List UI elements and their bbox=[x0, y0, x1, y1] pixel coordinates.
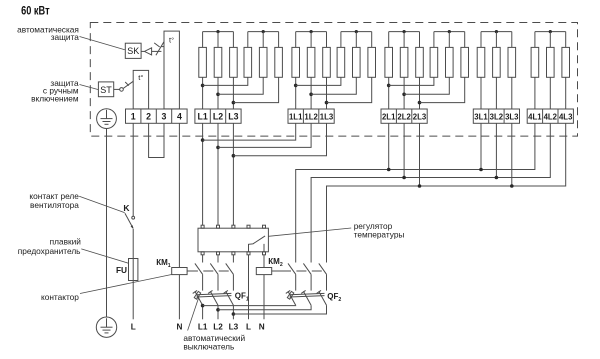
node: star junction bank2 left sub-bank bbox=[310, 30, 313, 33]
wire: top lead element 3 of bank5 bbox=[565, 32, 567, 48]
regulator top pin 5 bbox=[263, 225, 266, 228]
node: bus tee 2L3 bbox=[418, 184, 422, 188]
circuit breaker QF1 pole 1 blade bbox=[195, 291, 203, 305]
fuse FU bbox=[129, 259, 138, 281]
regulator internal relay fixed stub bbox=[263, 244, 265, 252]
wire: KM2 contact 1 to QF2 bbox=[295, 274, 297, 290]
wire: regulator pin4 to L bbox=[248, 255, 250, 319]
wire: bottom lead element 2 of bank2 to terminal bbox=[310, 77, 312, 109]
wire: jumper L3 to 1L3 bbox=[233, 123, 326, 155]
svg-text:SK: SK bbox=[127, 46, 139, 56]
ST pivot circle bbox=[120, 88, 124, 92]
wire: top lead element 1 of bank4 bbox=[480, 32, 482, 48]
wire: bottom lead element 5 of bank1 (stage1) bbox=[218, 77, 263, 94]
leader to ST bbox=[80, 85, 99, 90]
regulator top pin 3 bbox=[232, 225, 235, 228]
heating element bank2 right sub-bank.1 bbox=[337, 47, 345, 77]
wire: bottom lead element 2 of bank1 (stage1) to terminal bbox=[217, 77, 219, 109]
wire: KM1 contact 2 to QF1 bbox=[217, 274, 219, 290]
wire: bottom lead element 3 of bank1 (stage1) to terminal bbox=[232, 77, 234, 109]
heating element bank2 left sub-bank.1 bbox=[292, 47, 300, 77]
leader to FU bbox=[81, 249, 128, 263]
wire: top lead element 2 of bank5 bbox=[549, 32, 551, 48]
KM2 mechanical linkage bbox=[272, 270, 291, 272]
regulator top pin 1 bbox=[201, 225, 204, 228]
svg-text:N: N bbox=[176, 323, 182, 332]
wire: ST to pivot circle bbox=[114, 88, 120, 90]
heating element bank5.3 bbox=[562, 47, 570, 77]
QF1 pole 3 latch tick bbox=[224, 290, 228, 293]
wire: QF1 pole 1 to mains L1 bbox=[202, 305, 204, 319]
wire: star bus of bank3 left sub-bank bbox=[389, 31, 420, 33]
node: bus tee 2L1 bbox=[387, 168, 391, 172]
leader to KM1 coil bbox=[80, 274, 172, 293]
node: star junction bank3 right sub-bank bbox=[448, 30, 451, 33]
svg-text:контактор: контактор bbox=[41, 292, 79, 302]
svg-text:L2: L2 bbox=[213, 323, 223, 332]
svg-text:t°: t° bbox=[169, 35, 174, 44]
heating element bank3 left sub-bank.3 bbox=[416, 47, 424, 77]
KM1 linkage segment 2 bbox=[203, 270, 213, 272]
wire: top lead element 1 of bank1 (stage1) right sub-bank bbox=[247, 32, 249, 48]
node: star junction bank5 bbox=[549, 30, 552, 33]
wire: bottom lead element 4 of bank3 bbox=[389, 77, 434, 85]
wire through fuse bbox=[132, 259, 134, 281]
svg-text:1L2: 1L2 bbox=[304, 112, 318, 121]
regulator bottom pin 8 bbox=[232, 252, 235, 255]
wire: star bus of bank5 bbox=[535, 31, 566, 33]
wire: star bus of bank1 (stage1) left sub-bank bbox=[203, 31, 234, 33]
QF2 trip crossbar bbox=[290, 293, 325, 294]
circuit breaker QF2 pole 2 blade bbox=[303, 291, 311, 305]
wire: SK to triangle bbox=[141, 50, 144, 52]
temperature regulator box U1 bbox=[198, 228, 268, 252]
wire: mains bus phase 2 to QF2 bbox=[218, 305, 311, 310]
wire: top lead element 1 of bank3 right sub-bank bbox=[433, 32, 435, 48]
wire: bus phase 1 from 4L1 to KM2 pole 1 bbox=[296, 123, 535, 262]
leader to K bbox=[79, 196, 124, 212]
wire: stub to sensor box bbox=[161, 46, 164, 48]
wire: terminal 4 down to contactor coil bbox=[178, 123, 180, 267]
contactor KM1 contact 2 blade bbox=[210, 263, 218, 274]
wire: KM2 contact 3 to QF2 bbox=[326, 274, 328, 290]
wire: top lead element 3 of bank2 left sub-bank bbox=[326, 32, 328, 48]
protective earth (bottom, supply side) bbox=[96, 317, 116, 337]
node: mains tee phase 3 bbox=[232, 312, 236, 316]
svg-text:L: L bbox=[246, 323, 251, 332]
wire: top lead element 1 of bank5 bbox=[534, 32, 536, 48]
node: bus tee 2L2 bbox=[402, 176, 406, 180]
svg-text:L3: L3 bbox=[229, 323, 239, 332]
circuit breaker QF1 pole 3 blade bbox=[226, 291, 234, 305]
QF2 pole 1 latch tick bbox=[286, 290, 290, 293]
wire: top lead element 2 of bank4 bbox=[495, 32, 497, 48]
svg-text:L3: L3 bbox=[228, 111, 238, 121]
node: star junction bank3 left sub-bank bbox=[403, 30, 406, 33]
regulator top pin 2 bbox=[217, 225, 220, 228]
svg-text:защита: защита bbox=[51, 32, 80, 42]
wire: bottom lead element 5 of bank3 bbox=[404, 77, 449, 94]
svg-text:1L1: 1L1 bbox=[289, 112, 303, 121]
svg-text:L2: L2 bbox=[213, 111, 223, 121]
node: tee to 1L1 bbox=[201, 138, 205, 142]
wire: regulator pin5 to KM2 coil bbox=[263, 255, 265, 268]
wire: top lead element 3 of bank2 right sub-bank bbox=[371, 32, 373, 48]
svg-text:ST: ST bbox=[100, 85, 112, 95]
QF1 release latch bbox=[194, 291, 201, 299]
wire: bottom lead element 2 of bank4 bbox=[495, 77, 497, 109]
svg-text:2: 2 bbox=[146, 111, 151, 121]
wire: bottom lead element 6 of bank2 bbox=[327, 77, 372, 102]
heating element bank3 right sub-bank.1 bbox=[430, 47, 438, 77]
heating element bank4.2 bbox=[493, 47, 501, 77]
svg-text:4L3: 4L3 bbox=[559, 112, 573, 121]
heating element bank2 left sub-bank.2 bbox=[307, 47, 315, 77]
wire: 3L3 drop to bus bbox=[511, 123, 513, 186]
node: parallel joint phase 1 of bank1 (stage1) bbox=[201, 84, 205, 88]
wire: star bus of bank2 right sub-bank bbox=[341, 31, 372, 33]
wire: top lead element 2 of bank1 (stage1) right sub-bank bbox=[262, 32, 264, 48]
svg-text:L1: L1 bbox=[197, 111, 207, 121]
wire: terminal L2 down to regulator pin 2 bbox=[217, 123, 219, 225]
wire: bottom lead element 6 of bank1 (stage1) bbox=[233, 77, 278, 102]
svg-text:2L3: 2L3 bbox=[413, 112, 427, 121]
svg-text:t°: t° bbox=[138, 73, 143, 82]
contactor KM2 contact 1 blade bbox=[288, 263, 296, 274]
wire: 2L3 drop to bus bbox=[419, 123, 421, 186]
svg-text:1: 1 bbox=[131, 111, 136, 121]
wire: bus phase 2 from 4L2 to KM2 pole 2 bbox=[311, 123, 550, 262]
wire: top lead element 1 of bank3 left sub-bank bbox=[388, 32, 390, 48]
regulator bottom pin 7 bbox=[217, 252, 220, 255]
wire: bus phase 3 from 4L3 to KM2 pole 3 bbox=[327, 123, 566, 262]
terminal strip control terminals 1-4 bbox=[126, 109, 188, 123]
wire: bottom lead element 2 of bank5 bbox=[549, 77, 551, 109]
heating element bank1 (stage1) left sub-bank.3 bbox=[230, 47, 238, 77]
wire: terminal L1 down to regulator pin 1 bbox=[202, 123, 204, 225]
wire: top lead element 2 of bank1 (stage1) left sub-bank bbox=[217, 32, 219, 48]
wire: top lead element 3 of bank1 (stage1) right sub-bank bbox=[278, 32, 280, 48]
wire: bottom lead element 1 of bank3 to terminal bbox=[388, 77, 390, 109]
circuit breaker QF1 pole 2 blade bbox=[210, 291, 218, 305]
svg-text:предохранитель: предохранитель bbox=[18, 246, 81, 256]
ST contact blade bbox=[123, 81, 133, 88]
temperature sensor box t (ST) on terminals 1-2 bbox=[133, 70, 148, 109]
terminal strip stage1 terminals L1 L2 L3 bbox=[195, 109, 241, 123]
ST thermal-trip tick bbox=[125, 82, 129, 86]
svg-text:60 кВт: 60 кВт bbox=[21, 6, 50, 18]
wire: bottom lead element 1 of bank4 bbox=[480, 77, 482, 109]
node: tee to 1L2 bbox=[216, 146, 220, 150]
svg-text:4: 4 bbox=[177, 111, 182, 121]
wire: KM2 contact 2 to QF2 bbox=[310, 274, 312, 290]
svg-text:K: K bbox=[123, 203, 130, 213]
svg-text:4L1: 4L1 bbox=[528, 112, 542, 121]
wire: mains bus phase 3 to QF2 bbox=[233, 305, 326, 314]
wire: 2L1 drop to bus bbox=[388, 123, 390, 169]
regulator bottom pin 6 bbox=[201, 252, 204, 255]
circuit breaker QF2 pole 3 blade bbox=[319, 291, 327, 305]
QF1 trip crossbar bbox=[196, 293, 231, 294]
terminal strip terminals 3L1 3L2 3L3 bbox=[473, 109, 519, 123]
heating element bank1 (stage1) right sub-bank.1 bbox=[244, 47, 252, 77]
wire: bottom lead element 4 of bank2 bbox=[296, 77, 341, 85]
wire: regulator pin to KM1 contact 1 bbox=[202, 255, 204, 263]
KM1 mechanical linkage bbox=[187, 270, 198, 272]
svg-text:3L1: 3L1 bbox=[474, 112, 488, 121]
wire: bottom lead element 1 of bank1 (stage1) to terminal bbox=[202, 77, 204, 109]
wire: star bus of bank2 left sub-bank bbox=[296, 31, 327, 33]
temperature sensor box t (SK) on terminals 3-4 bbox=[164, 31, 179, 109]
regulator internal relay wire (L side) bbox=[249, 244, 253, 252]
heating element bank1 (stage1) right sub-bank.2 bbox=[259, 47, 267, 77]
contactor coil KM2 bbox=[256, 268, 271, 275]
svg-text:4L2: 4L2 bbox=[544, 112, 558, 121]
wire: bottom lead element 6 of bank3 bbox=[420, 77, 465, 102]
heating element bank4.3 bbox=[508, 47, 516, 77]
terminal strip terminals 4L1 4L2 4L3 bbox=[527, 109, 573, 123]
triangle connector of SK bbox=[144, 48, 151, 55]
wire: bottom lead element 1 of bank5 bbox=[534, 77, 536, 109]
node: star junction bank1 (stage1) left sub-bank bbox=[216, 30, 219, 33]
svg-text:выключатель: выключатель bbox=[183, 342, 234, 352]
node: bus tee 3L3 bbox=[510, 184, 514, 188]
node: parallel joint phase 2 of bank2 bbox=[309, 93, 313, 97]
wire: star bus of bank1 (stage1) right sub-bank bbox=[248, 31, 279, 33]
regulator bottom pin 9 bbox=[247, 252, 250, 255]
node: mains tee phase 2 bbox=[216, 308, 220, 312]
contactor KM2 contact 3 blade bbox=[319, 263, 327, 274]
node: star junction bank2 right sub-bank bbox=[355, 30, 358, 33]
node: parallel joint phase 1 of bank2 bbox=[294, 84, 298, 88]
wire: triangle to SK contact bbox=[152, 50, 162, 52]
contactor KM1 contact 1 blade bbox=[195, 263, 203, 274]
heating element bank3 right sub-bank.2 bbox=[446, 47, 454, 77]
KM2 linkage segment 2 bbox=[296, 270, 306, 272]
svg-text:2L2: 2L2 bbox=[397, 112, 411, 121]
regulator internal relay blade bbox=[253, 236, 265, 244]
heating element bank3 left sub-bank.2 bbox=[400, 47, 408, 77]
node: parallel joint phase 3 of bank1 (stage1) bbox=[232, 101, 236, 105]
heating element bank2 right sub-bank.3 bbox=[368, 47, 376, 77]
wire: terminal L3 down to regulator pin 3 bbox=[232, 123, 234, 225]
wire: jumper L1 to 1L1 bbox=[203, 123, 296, 140]
svg-text:плавкий: плавкий bbox=[50, 237, 82, 247]
node: parallel joint phase 3 of bank2 bbox=[325, 101, 329, 105]
wire: top lead element 1 of bank2 right sub-bank bbox=[340, 32, 342, 48]
wire: earth conductor bbox=[106, 129, 108, 318]
svg-text:3L3: 3L3 bbox=[505, 112, 519, 121]
QF1 pole 1 latch tick bbox=[193, 290, 197, 293]
wire: QF1 pole 2 to mains L2 bbox=[217, 305, 219, 319]
relay contact K blade bbox=[125, 213, 133, 228]
wire: top lead element 2 of bank2 left sub-bank bbox=[310, 32, 312, 48]
contactor coil KM1 bbox=[172, 268, 187, 275]
leader to regulator label bbox=[268, 228, 351, 236]
heating element bank5.1 bbox=[531, 47, 539, 77]
wire: top lead element 3 of bank3 left sub-bank bbox=[419, 32, 421, 48]
heating element bank4.1 bbox=[477, 47, 485, 77]
protective earth terminal (top, in unit) bbox=[97, 109, 117, 129]
wire: top lead element 3 of bank3 right sub-bank bbox=[464, 32, 466, 48]
QF2 pole 2 latch tick bbox=[301, 290, 305, 293]
manual reset cutout ST box bbox=[98, 82, 113, 97]
thermal cutout SK box bbox=[125, 43, 141, 58]
wire: jumper L2 to 1L2 bbox=[218, 123, 311, 147]
wire: top lead element 1 of bank1 (stage1) left sub-bank bbox=[202, 32, 204, 48]
svg-text:L: L bbox=[131, 323, 136, 332]
wire: bottom lead element 3 of bank3 to terminal bbox=[419, 77, 421, 109]
heating element bank1 (stage1) left sub-bank.1 bbox=[199, 47, 207, 77]
wire: top lead element 3 of bank1 (stage1) left sub-bank bbox=[232, 32, 234, 48]
wire: top lead element 3 of bank4 bbox=[511, 32, 513, 48]
wire: 3L2 drop to bus bbox=[495, 123, 497, 177]
node: star junction bank4 bbox=[495, 30, 498, 33]
wire: top lead element 2 of bank3 left sub-bank bbox=[403, 32, 405, 48]
heater unit dashed enclosure bbox=[90, 23, 577, 137]
wire: regulator pin to KM1 contact 3 bbox=[232, 255, 234, 263]
wire: 3L1 drop to bus bbox=[480, 123, 482, 169]
svg-text:N: N bbox=[259, 323, 265, 332]
node: bus tee 3L1 bbox=[479, 168, 483, 172]
node: star junction bank1 (stage1) right sub-bank bbox=[262, 30, 265, 33]
heating element bank5.2 bbox=[547, 47, 555, 77]
svg-text:температуры: температуры bbox=[354, 230, 405, 240]
wire: KM1 contact 3 to QF1 bbox=[232, 274, 234, 290]
heating element bank1 (stage1) right sub-bank.3 bbox=[275, 47, 283, 77]
wire: bottom lead element 2 of bank3 to terminal bbox=[403, 77, 405, 109]
fan relay contact K fixed point bbox=[132, 216, 135, 219]
node: parallel joint phase 1 of bank3 bbox=[387, 84, 391, 88]
regulator bottom pin 10 bbox=[263, 252, 266, 255]
svg-text:1L3: 1L3 bbox=[320, 112, 334, 121]
KM2 linkage segment 3 bbox=[312, 270, 322, 272]
SK contact blade bbox=[156, 42, 164, 56]
wire: star bus of bank4 bbox=[481, 31, 512, 33]
node: parallel joint phase 2 of bank1 (stage1) bbox=[216, 93, 220, 97]
QF2 pole 3 latch tick bbox=[317, 290, 321, 293]
svg-text:L1: L1 bbox=[198, 323, 208, 332]
contactor KM2 contact 2 blade bbox=[303, 263, 311, 274]
node: bus tee 3L2 bbox=[495, 176, 499, 180]
heating element bank2 left sub-bank.3 bbox=[323, 47, 331, 77]
regulator top pin 4 bbox=[247, 225, 250, 228]
terminal strip terminals 2L1 2L2 2L3 bbox=[381, 109, 427, 123]
circuit breaker QF2 pole 1 blade bbox=[288, 291, 296, 305]
relay contact K arrowhead bbox=[131, 225, 134, 229]
QF1 pole 2 latch tick bbox=[208, 290, 212, 293]
node: tee to 1L3 bbox=[232, 154, 236, 158]
wire: mains bus phase 1 to QF2 bbox=[203, 304, 296, 306]
node: mains tee phase 1 bbox=[201, 304, 205, 308]
heating element bank3 left sub-bank.1 bbox=[385, 47, 393, 77]
wire: jumper terminals 2-3 bbox=[149, 123, 164, 157]
node: parallel joint phase 3 of bank3 bbox=[418, 101, 422, 105]
SK thermal-trip tick bbox=[154, 43, 160, 47]
wire: bottom lead element 3 of bank2 to terminal bbox=[326, 77, 328, 109]
wire: top lead element 2 of bank2 right sub-bank bbox=[355, 32, 357, 48]
wire: bottom lead element 1 of bank2 to terminal bbox=[295, 77, 297, 109]
wire: top lead element 1 of bank2 left sub-bank bbox=[295, 32, 297, 48]
wire: top lead element 2 of bank3 right sub-bank bbox=[448, 32, 450, 48]
QF2 release latch bbox=[287, 291, 294, 299]
wire: 2L2 drop to bus bbox=[403, 123, 405, 177]
wire: KM1 contact 1 to QF1 bbox=[202, 274, 204, 290]
svg-text:3: 3 bbox=[162, 111, 167, 121]
wire: bottom lead element 3 of bank4 bbox=[511, 77, 513, 109]
KM1 linkage segment 3 bbox=[219, 270, 229, 272]
svg-text:2L1: 2L1 bbox=[382, 112, 396, 121]
leader to QF1 bbox=[188, 297, 199, 330]
contactor KM1 contact 3 blade bbox=[226, 263, 234, 274]
svg-text:вентилятора: вентилятора bbox=[30, 200, 79, 210]
heating element bank1 (stage1) left sub-bank.2 bbox=[214, 47, 222, 77]
wire: terminal 1 down to relay contact K bbox=[132, 123, 134, 216]
wire: regulator pin to KM1 contact 2 bbox=[217, 255, 219, 263]
wire: bottom lead element 3 of bank5 bbox=[565, 77, 567, 109]
node: parallel joint phase 2 of bank3 bbox=[402, 93, 406, 97]
wire: QF1 pole 3 to mains L3 bbox=[232, 305, 234, 319]
wire: star bus of bank3 right sub-bank bbox=[434, 31, 465, 33]
terminal strip terminals 1L1 1L2 1L3 bbox=[288, 109, 334, 123]
wire: KM2 coil to N bbox=[263, 275, 265, 320]
svg-text:3L2: 3L2 bbox=[490, 112, 504, 121]
wire: KM1 coil to N bbox=[178, 275, 180, 320]
wire: bottom lead element 5 of bank2 bbox=[311, 77, 356, 94]
leader to SK bbox=[80, 37, 125, 50]
heating element bank2 right sub-bank.2 bbox=[353, 47, 361, 77]
heating element bank3 right sub-bank.3 bbox=[461, 47, 469, 77]
svg-text:включением: включением bbox=[31, 93, 79, 103]
wire: bottom lead element 4 of bank1 (stage1) bbox=[203, 77, 248, 85]
wire: K contact to L via fuse bbox=[132, 229, 134, 319]
svg-text:FU: FU bbox=[116, 265, 127, 275]
